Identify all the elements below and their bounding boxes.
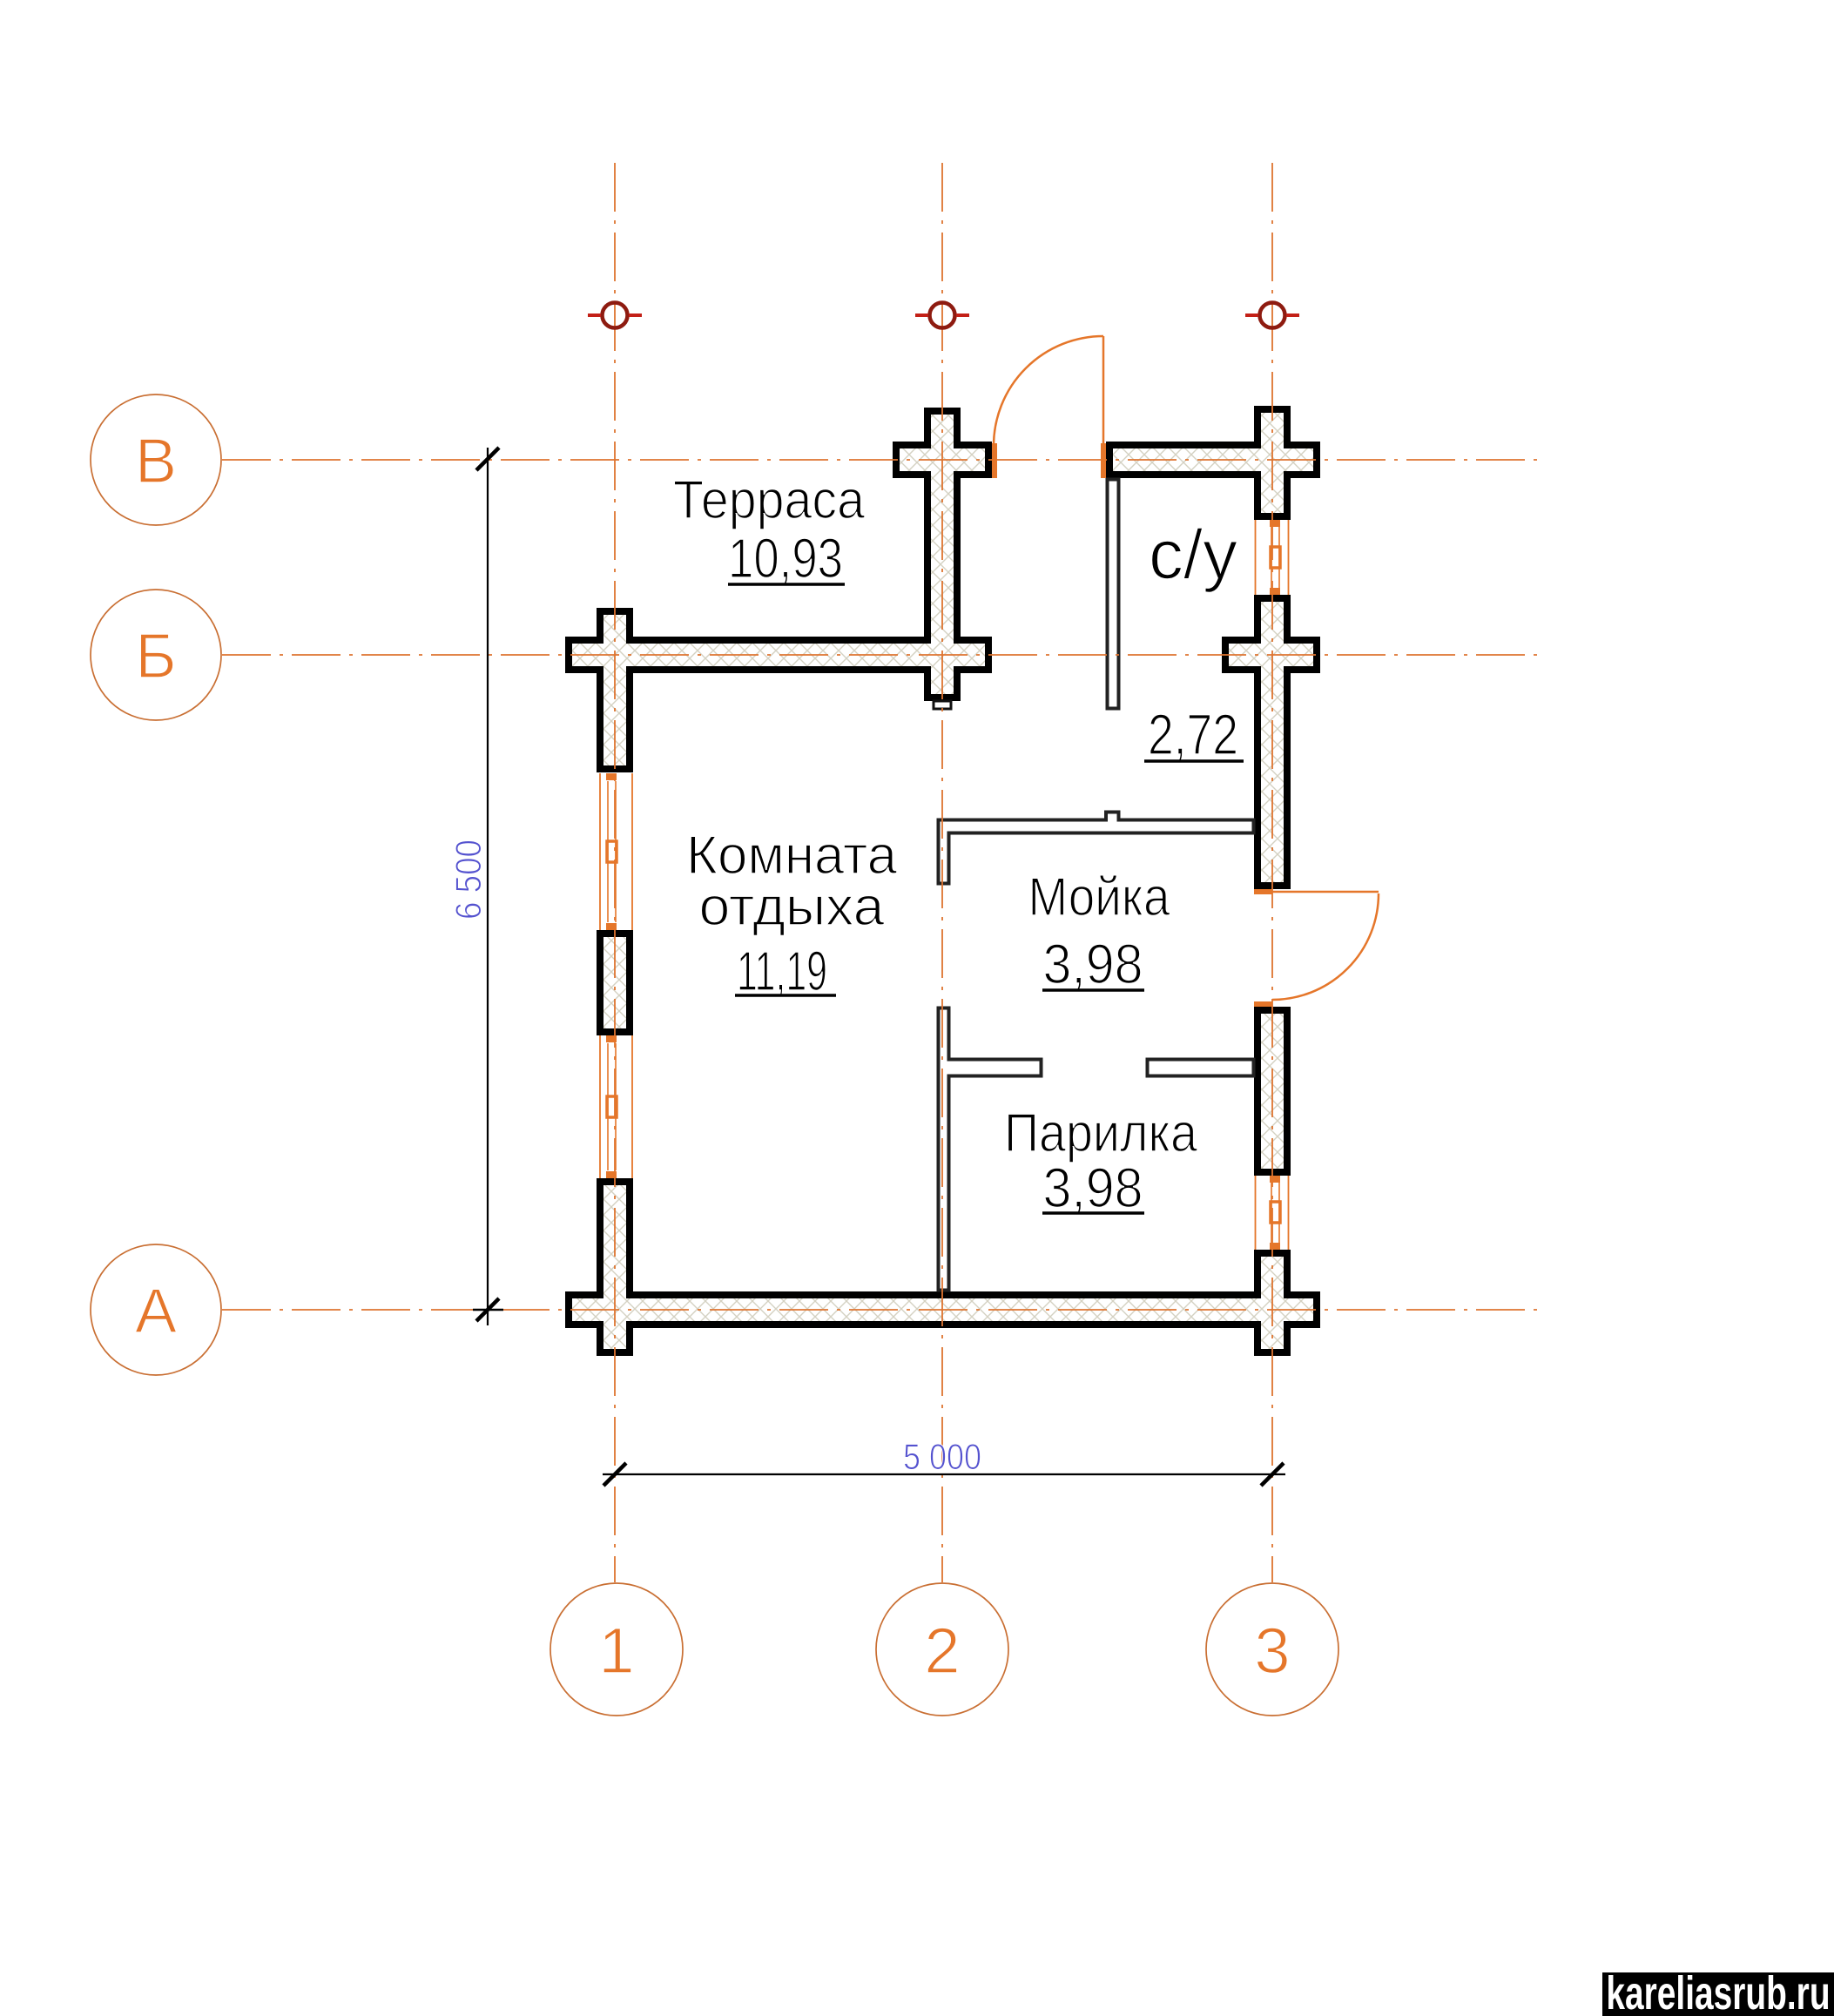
watermark kareliasrub.ru [1602,1966,1834,2016]
svg-text:2: 2 [924,1615,960,1687]
axis bubble 2 [876,1583,1008,1716]
svg-text:отдыха: отдыха [699,877,886,937]
svg-text:3,98: 3,98 [1043,1156,1143,1219]
мойка exterior door on axis 3 [1254,889,1379,1007]
partition: мойка top wall with с/у notch [939,812,1254,884]
axis line А horizontal [222,1309,1545,1311]
wall piece: axis-3 pier between doors [1254,1007,1291,1176]
room label Комната отдыха 11,19 [686,826,898,1002]
svg-text:kareliasrub.ru: kareliasrub.ru [1606,1966,1830,2016]
partition: парилка partition right [1148,1060,1254,1076]
svg-text:10,93: 10,93 [728,527,843,590]
wall piece: axis-3 wall at axis Б cross [1222,595,1320,889]
wall piece: с/у top wall on axis В + axis-3 top stub [1106,406,1320,520]
room label с/у 2,72 [1144,516,1244,766]
svg-text:2,72: 2,72 [1148,702,1238,766]
svg-text:Парилка: Парилка [1004,1103,1197,1163]
red grid marker axis 2 [915,303,969,328]
axis line 1 vertical [614,163,616,1582]
window W1 left wall upper [600,773,632,930]
axis bubble 3 [1206,1583,1338,1716]
axis bubble Б [91,590,221,720]
dimension line bottom 5000 [603,1436,1285,1486]
window W2 left wall lower [600,1035,632,1178]
svg-text:3,98: 3,98 [1043,933,1143,995]
svg-text:1: 1 [598,1615,634,1687]
room label Парилка 3,98 [1004,1103,1197,1219]
axis bubble В [91,394,221,525]
svg-text:Мойка: Мойка [1028,867,1170,927]
svg-text:В: В [135,427,177,496]
wall piece: axis-1 upper pier + axis-Б wall + axis-2 wall + В-axis cross bar [565,408,992,772]
room label Терраса 10,93 [673,470,865,590]
axis line В horizontal [222,459,1545,461]
svg-text:6 500: 6 500 [448,839,489,920]
window W4 парилка on axis 3 [1256,1176,1289,1250]
partition: с/у left wall [1108,480,1119,709]
partition: комната/мойка lower wall + парилка partition left [939,1008,1042,1291]
red grid marker axis 1 [588,303,642,328]
entrance door on axis В [992,336,1106,478]
svg-text:Б: Б [135,622,176,691]
svg-text:Терраса: Терраса [673,470,865,530]
axis line 3 vertical [1271,163,1273,1582]
svg-text:11,19: 11,19 [737,940,827,1002]
svg-text:А: А [135,1277,177,1346]
red grid marker axis 3 [1245,303,1299,328]
window W3 с/у on axis 3 [1256,520,1289,595]
wall piece: axis-1 lower pier + axis-А wall + axis-3 lower pier [565,1178,1320,1356]
axis bubble А [91,1244,221,1375]
svg-text:с/у: с/у [1149,516,1237,593]
svg-text:5 000: 5 000 [903,1436,981,1477]
axis line Б horizontal [222,654,1545,656]
wall piece: axis-1 middle pier [597,930,633,1035]
svg-text:3: 3 [1254,1615,1290,1687]
dimension line left 6500 [448,448,503,1325]
axis bubble 1 [550,1583,683,1716]
room label Мойка 3,98 [1028,867,1170,995]
axis line 2 vertical [941,163,943,1582]
wall end cap at bottom of axis-2 wall [934,701,951,709]
